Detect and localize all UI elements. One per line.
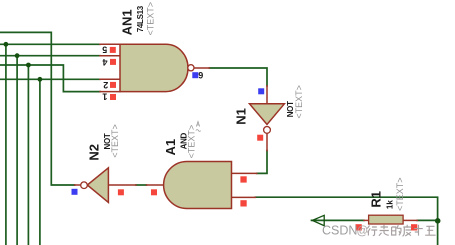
wire AN1 output to N1	[209, 68, 267, 86]
junction dot on H4	[26, 63, 31, 68]
pin A1 input A	[232, 172, 257, 174]
inverter N1 bubble	[264, 126, 271, 133]
wire V4	[39, 79, 41, 245]
inverter N2 body	[87, 168, 108, 203]
NAND gate AN1 bubble	[188, 65, 194, 71]
resistor R1 body	[369, 215, 404, 224]
svg-text:AN1: AN1	[120, 9, 135, 35]
svg-text:CSDN: CSDN	[322, 224, 357, 238]
wire arrow terminal to R1	[312, 219, 365, 221]
AND gate A1 body	[164, 162, 232, 209]
wire H1 top-left	[0, 32, 75, 185]
junction dot on H5	[38, 77, 43, 82]
svg-text:@: @	[357, 226, 369, 238]
pin AN1.5	[100, 43, 120, 45]
state square N2 input red	[118, 189, 124, 195]
wire R1 to node	[417, 219, 437, 221]
junction dot on H2	[4, 42, 9, 47]
svg-text:<TEXT>: <TEXT>	[186, 125, 196, 159]
inverter N1 body	[250, 104, 285, 125]
junction dot on H3	[15, 53, 20, 58]
input terminal arrow	[312, 215, 324, 225]
state square A1 output red	[151, 189, 157, 195]
pin N2 input	[108, 184, 136, 186]
state square AN1 output blue	[192, 72, 198, 78]
state square AN1 pin1	[110, 94, 116, 100]
wire V2	[16, 56, 18, 245]
state square A1 input B red	[240, 200, 246, 206]
svg-text:1: 1	[102, 91, 107, 101]
pin N1 input	[266, 86, 268, 104]
state square R1 right red	[411, 224, 417, 230]
pin A1 output	[147, 184, 166, 186]
junction dot at R1 node	[435, 218, 441, 224]
NAND gate AN1 body	[120, 44, 188, 91]
pin R1 left	[364, 219, 369, 221]
svg-text:<TEXT>: <TEXT>	[110, 124, 120, 158]
wire H3 to AN1 pin 4	[0, 55, 100, 57]
wire N1 output to A1 input A	[257, 151, 267, 174]
svg-text:6: 6	[198, 70, 203, 80]
svg-text:R1: R1	[369, 191, 384, 208]
svg-text:N2: N2	[87, 144, 102, 161]
wire V1	[5, 44, 7, 245]
pin AN1.4	[100, 55, 120, 57]
pin AN1.1	[100, 91, 120, 93]
state square AN1 pin5	[110, 47, 116, 53]
pin AN1.6 output	[195, 67, 210, 69]
svg-text:74LS13: 74LS13	[136, 5, 145, 32]
pin A1 input B	[232, 196, 256, 198]
svg-text:A1: A1	[163, 139, 178, 156]
svg-text:2: 2	[103, 80, 108, 90]
svg-text:<TEXT>: <TEXT>	[294, 85, 304, 119]
state square R1 left red	[356, 224, 362, 230]
wire V3	[27, 65, 29, 245]
svg-text:N1: N1	[233, 108, 248, 125]
svg-text:4: 4	[102, 57, 107, 67]
state square AN1 pin2	[110, 82, 116, 88]
pin N1 output	[266, 133, 268, 151]
state square N1 input blue	[258, 88, 264, 94]
state square N1 output red	[257, 135, 263, 141]
state square N2 output blue	[72, 189, 78, 195]
state square AN1 pin4	[110, 59, 116, 65]
origin marker glyph	[196, 122, 201, 132]
wire A1 output to N2 input	[136, 184, 147, 186]
pin R1 right	[403, 219, 417, 221]
svg-text:1k: 1k	[386, 200, 395, 209]
inverter N2 bubble	[81, 182, 88, 189]
state square A1 input A red	[240, 176, 246, 182]
wire H4 to AN1 pin 1	[0, 65, 100, 92]
pin N2 output	[75, 184, 81, 186]
wire H5 to AN1 pin 2	[0, 78, 100, 80]
svg-text:5: 5	[102, 45, 107, 55]
watermark hanzi strokes	[367, 225, 435, 237]
wire H2 to AN1 pin 5	[0, 43, 100, 45]
pin AN1.2	[100, 78, 120, 80]
wire A1 input B long wire	[255, 197, 437, 245]
svg-text:<TEXT>: <TEXT>	[395, 177, 405, 211]
svg-text:<TEXT>: <TEXT>	[146, 2, 156, 36]
